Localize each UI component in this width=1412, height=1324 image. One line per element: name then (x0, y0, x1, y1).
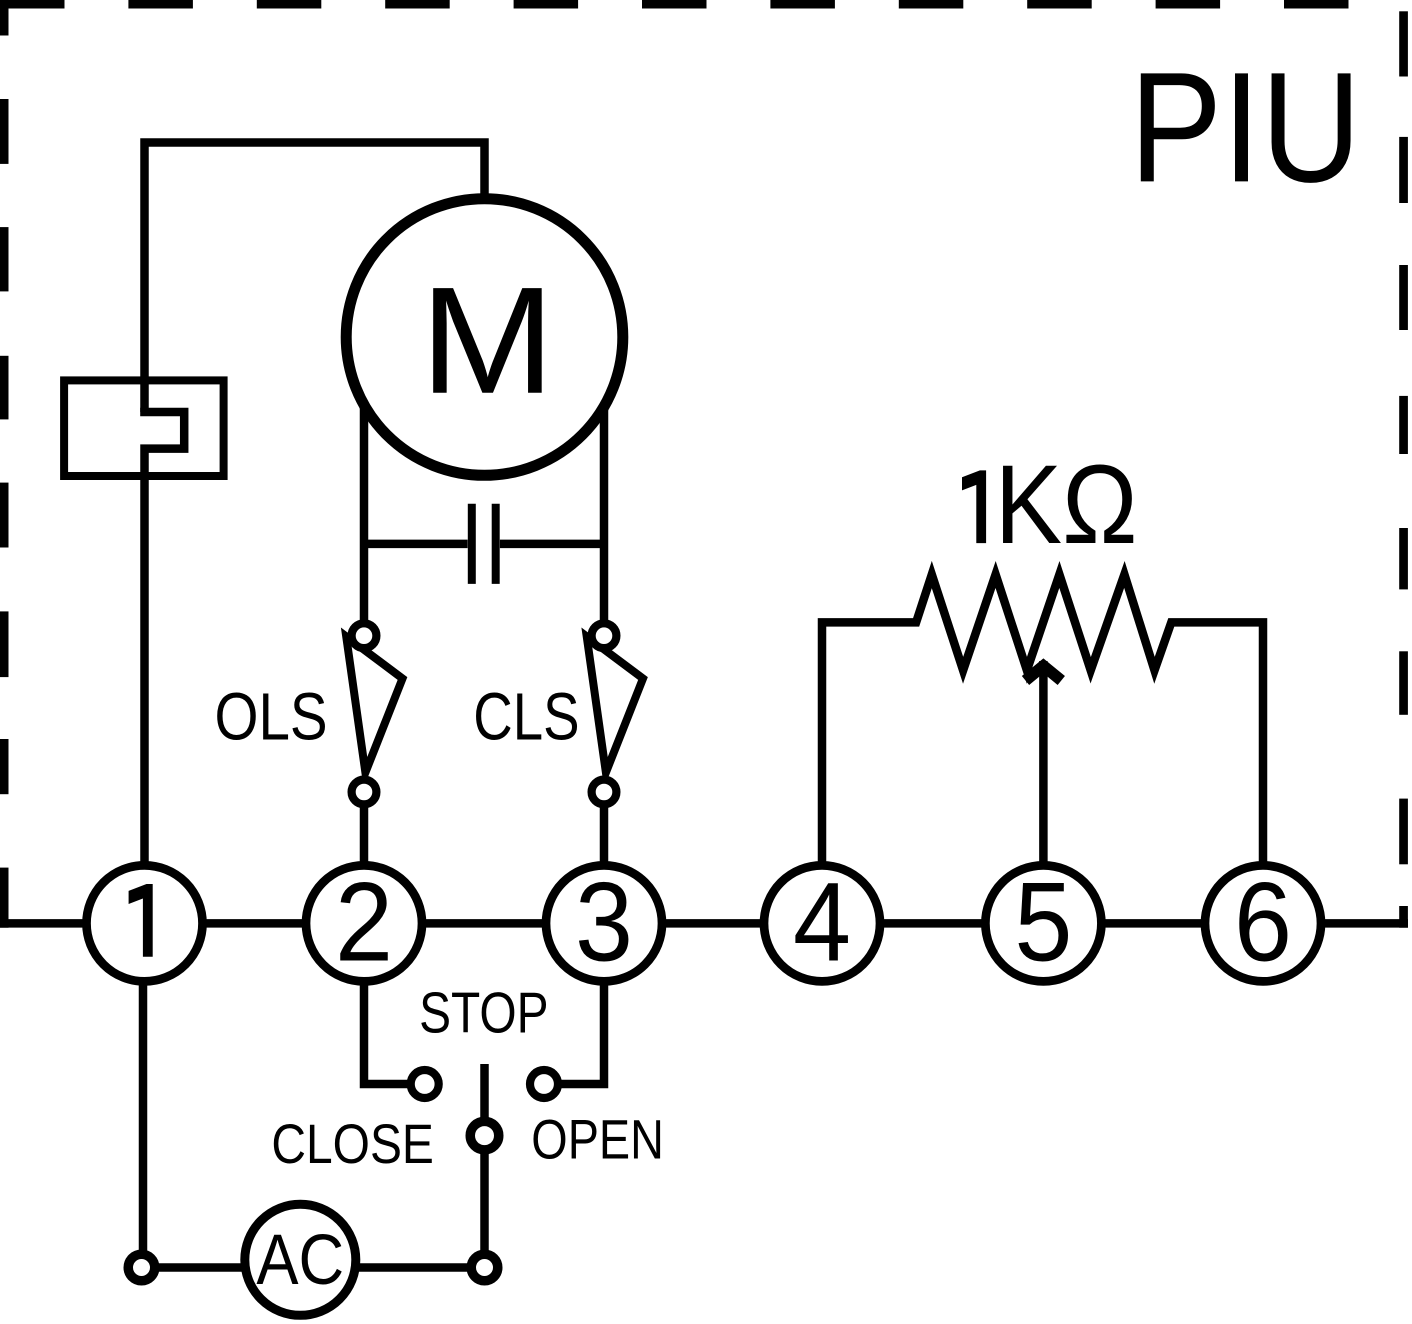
dashed enclosure border (left side) (0, 0, 9, 928)
terminal 1 digit (129, 884, 153, 957)
CLOSE contact circle (411, 1070, 439, 1098)
svg-text:3: 3 (575, 859, 633, 984)
svg-text:PIU: PIU (1129, 40, 1361, 215)
svg-text:KΩ: KΩ (995, 442, 1138, 567)
terminal 2 circle (306, 865, 422, 981)
wire: OLS to terminal 2 (360, 792, 369, 923)
OLS bottom contact (352, 780, 377, 805)
wire: from thermal protector up to top and across to motor (145, 143, 485, 413)
label 1K ohm (962, 470, 986, 543)
wire: terminal 2 down to CLOSE contact (364, 923, 425, 1084)
svg-text:2: 2 (335, 859, 393, 984)
capacitor C1 plates (468, 504, 476, 584)
CLS top contact (592, 623, 617, 648)
svg-text:OLS: OLS (215, 680, 328, 755)
terminal 4 circle (764, 865, 880, 981)
svg-text:6: 6 (1234, 859, 1292, 984)
terminal 3 circle (546, 865, 662, 981)
CLS bottom contact (592, 780, 617, 805)
svg-text:CLOSE: CLOSE (271, 1112, 434, 1175)
potentiometer R1 zigzag loop terminals 4-6 (822, 575, 1263, 924)
wire: motor right lead down to CLS (600, 406, 609, 636)
potentiometer wiper arrowhead (1026, 666, 1062, 681)
capacitor C1 left wire (364, 540, 468, 549)
thermal protector F1 (rectangle symbol) (64, 380, 224, 476)
svg-text:M: M (420, 256, 555, 426)
terminal 1 circle (87, 865, 203, 981)
wire: AC bottom rail (143, 1263, 485, 1272)
AC rail left node circle (128, 1254, 155, 1281)
wire: protector offset conductor down to terminal 1 (140, 412, 184, 923)
potentiometer wiper shaft from terminal 5 (1039, 661, 1048, 923)
dashed enclosure border (top side) (0, 0, 1349, 9)
dashed enclosure border (right side) (1399, 11, 1408, 927)
STOP plunger circle (470, 1121, 499, 1150)
svg-text:5: 5 (1014, 859, 1072, 984)
wire: CLS to terminal 3 (600, 792, 609, 923)
terminal 6 circle (1205, 865, 1321, 981)
svg-text:OPEN: OPEN (531, 1108, 664, 1171)
wire: motor left lead down to OLS (360, 406, 369, 636)
svg-text:STOP: STOP (419, 981, 548, 1045)
limit switch OLS blade (triangle) (346, 636, 402, 772)
AC source circle (245, 1204, 356, 1315)
svg-text:4: 4 (793, 859, 851, 984)
limit switch CLS blade (triangle) (587, 636, 643, 772)
terminal 5 circle (985, 865, 1101, 981)
wire: OPEN contact across and up to terminal 3 (544, 923, 604, 1084)
wire: STOP plunger down to AC rail node (480, 1064, 489, 1268)
OLS top contact (352, 623, 377, 648)
wire: terminal bus line through terminals 1-6 (0, 919, 1408, 928)
capacitor C1 right wire (500, 540, 604, 549)
wire: terminal 1 down to AC rail node (139, 923, 148, 1267)
svg-text:CLS: CLS (473, 680, 579, 755)
svg-text:AC: AC (256, 1221, 344, 1300)
OPEN contact circle (530, 1070, 558, 1098)
motor M1 circle (346, 199, 623, 476)
AC rail right node circle (471, 1254, 498, 1281)
